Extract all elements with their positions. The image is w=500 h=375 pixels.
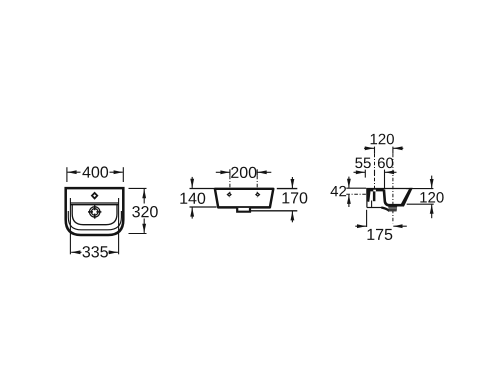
- dimension 175: left extension line: [366, 210, 368, 227]
- fixing hole right white center: [257, 194, 259, 195]
- dimension 335: right arrow: [109, 250, 118, 254]
- dimension 42: top arrow (down): [347, 177, 351, 188]
- extension line 335 left (rim edge, runs inside basin down to dim): [69, 198, 71, 254]
- centerline right fixing hole: [256, 176, 258, 198]
- centerline left fixing hole: [229, 176, 231, 198]
- dimension 200: extension tick right: [256, 169, 258, 175]
- bottom view outline (trapezoid): [215, 189, 273, 208]
- side view bowl inner wall (thick): [384, 190, 404, 206]
- dimension 55/60: tick left: [364, 170, 366, 178]
- dimension 175: left arrow (pointing right): [355, 224, 366, 228]
- dimension 400: right arrow: [110, 170, 123, 174]
- side view bottom line of back apron: [367, 207, 382, 209]
- side view back apron inner face: [371, 201, 373, 208]
- dimension 55: label: [355, 158, 362, 168]
- side view back wall outer edge: [366, 188, 368, 207]
- dimension 200: label: [231, 167, 238, 178]
- side view deck section band: [367, 189, 384, 192]
- dimension 120 top: tick right: [392, 147, 394, 154]
- dimension 200: right arrow (pointing left): [258, 170, 272, 174]
- drain symbol inner circle: [91, 209, 98, 216]
- dimension 140: label: [180, 193, 187, 204]
- drain boss hatch white lines: [388, 207, 397, 210]
- dimension 170: label: [282, 192, 289, 203]
- front view inner bowl outline: [72, 205, 117, 225]
- dimension 55: left arrow (pointing right): [354, 170, 366, 174]
- dimension 320: bottom extension line: [129, 233, 147, 235]
- dimension 200: left arrow (pointing right): [216, 170, 230, 174]
- dimension 200: extension tick left: [229, 169, 231, 175]
- side view fixing channel inner bar: [373, 189, 376, 201]
- fixing hole left white center: [228, 194, 230, 195]
- dimension 120 right: bottom arrow (up): [430, 205, 434, 219]
- dimension 170: top arrow (down): [291, 177, 295, 188]
- dimension 175: right arrow (pointing left): [393, 224, 407, 228]
- dimension 320: up arrow: [142, 189, 146, 204]
- dimension 400: left arrow: [67, 170, 80, 174]
- dimension 170: bottom extension line: [251, 210, 297, 212]
- bottom view notch (tab): [237, 208, 250, 212]
- drain symbol crosshair ticks: [88, 205, 101, 218]
- dimension 320: label: [132, 206, 140, 217]
- faucet hole symbol inner white diamond: [93, 194, 96, 197]
- dimension 42: bottom arrow (up): [347, 195, 351, 207]
- centerline drain axis (vertical dash-dot): [392, 154, 394, 224]
- dimension 320: top extension line: [129, 187, 147, 189]
- front view rim back edge line (upper): [70, 202, 118, 204]
- side view back wall section fill (wedge): [366, 188, 370, 202]
- dimension 60: right arrow (pointing left): [385, 170, 397, 174]
- front view outer outline (thick shell): [66, 188, 124, 235]
- dimension 140: top arrow (down): [190, 177, 194, 188]
- fixing hole right (diamond): [255, 192, 260, 197]
- dimension 140: bottom extension line: [190, 206, 217, 208]
- dimension 55/60: mid tick at centerline: [374, 170, 376, 175]
- dimension 120 top: left arrow (pointing right): [364, 146, 374, 150]
- dimension 170: bottom arrow (up): [291, 211, 295, 222]
- fixing hole left (diamond): [227, 192, 232, 197]
- dimension 42: label: [331, 186, 339, 196]
- centerline faucet axis (vertical dash-dot): [374, 154, 376, 191]
- dimension 320: down arrow: [142, 219, 146, 233]
- side view top deck line: [367, 188, 413, 190]
- dimension 170: top extension line: [277, 188, 298, 190]
- centerline fixing holes (horizontal dash-dot, 42 ref): [346, 193, 368, 195]
- dimension 55/60: tick right: [384, 170, 386, 188]
- side view bowl under-curve to drain: [381, 208, 389, 211]
- dimension 60: label: [378, 158, 385, 169]
- dimension 120 top: label: [371, 134, 377, 144]
- dimension 120 right: bottom extension line: [407, 203, 434, 205]
- drain symbol outer circle: [90, 207, 100, 217]
- side view front wall (thick diagonal): [401, 188, 413, 207]
- dimension 120 top: tick left: [374, 147, 376, 154]
- dimension 175: label: [367, 229, 374, 240]
- dimension 140: bottom arrow (up): [190, 207, 194, 218]
- dimension 335: label: [82, 246, 90, 257]
- faucet hole symbol (black diamond): [91, 192, 99, 200]
- dimension 400: extension tick right: [122, 167, 124, 182]
- dimension 120 right: top extension line: [406, 188, 433, 190]
- dimension 140: top extension line: [190, 188, 215, 190]
- dimension 400: label: [82, 167, 90, 178]
- dimension 120 top: right arrow (pointing left): [393, 146, 403, 150]
- dimension 400: extension tick left: [66, 167, 68, 182]
- front view rim front edge line (lower, thicker): [70, 204, 118, 206]
- dimension 335: left arrow: [71, 250, 81, 254]
- extension line 335 right: [118, 198, 120, 254]
- dimension 42: top reference line: [346, 187, 366, 189]
- side view faucet hole slot (white): [373, 190, 376, 192]
- dimension 120 right: top arrow (down): [430, 176, 434, 189]
- side view drain boss (hatched block): [388, 206, 397, 212]
- dimension 120 right: label: [420, 192, 426, 202]
- front view middle shell line (inner offset U): [68, 211, 121, 230]
